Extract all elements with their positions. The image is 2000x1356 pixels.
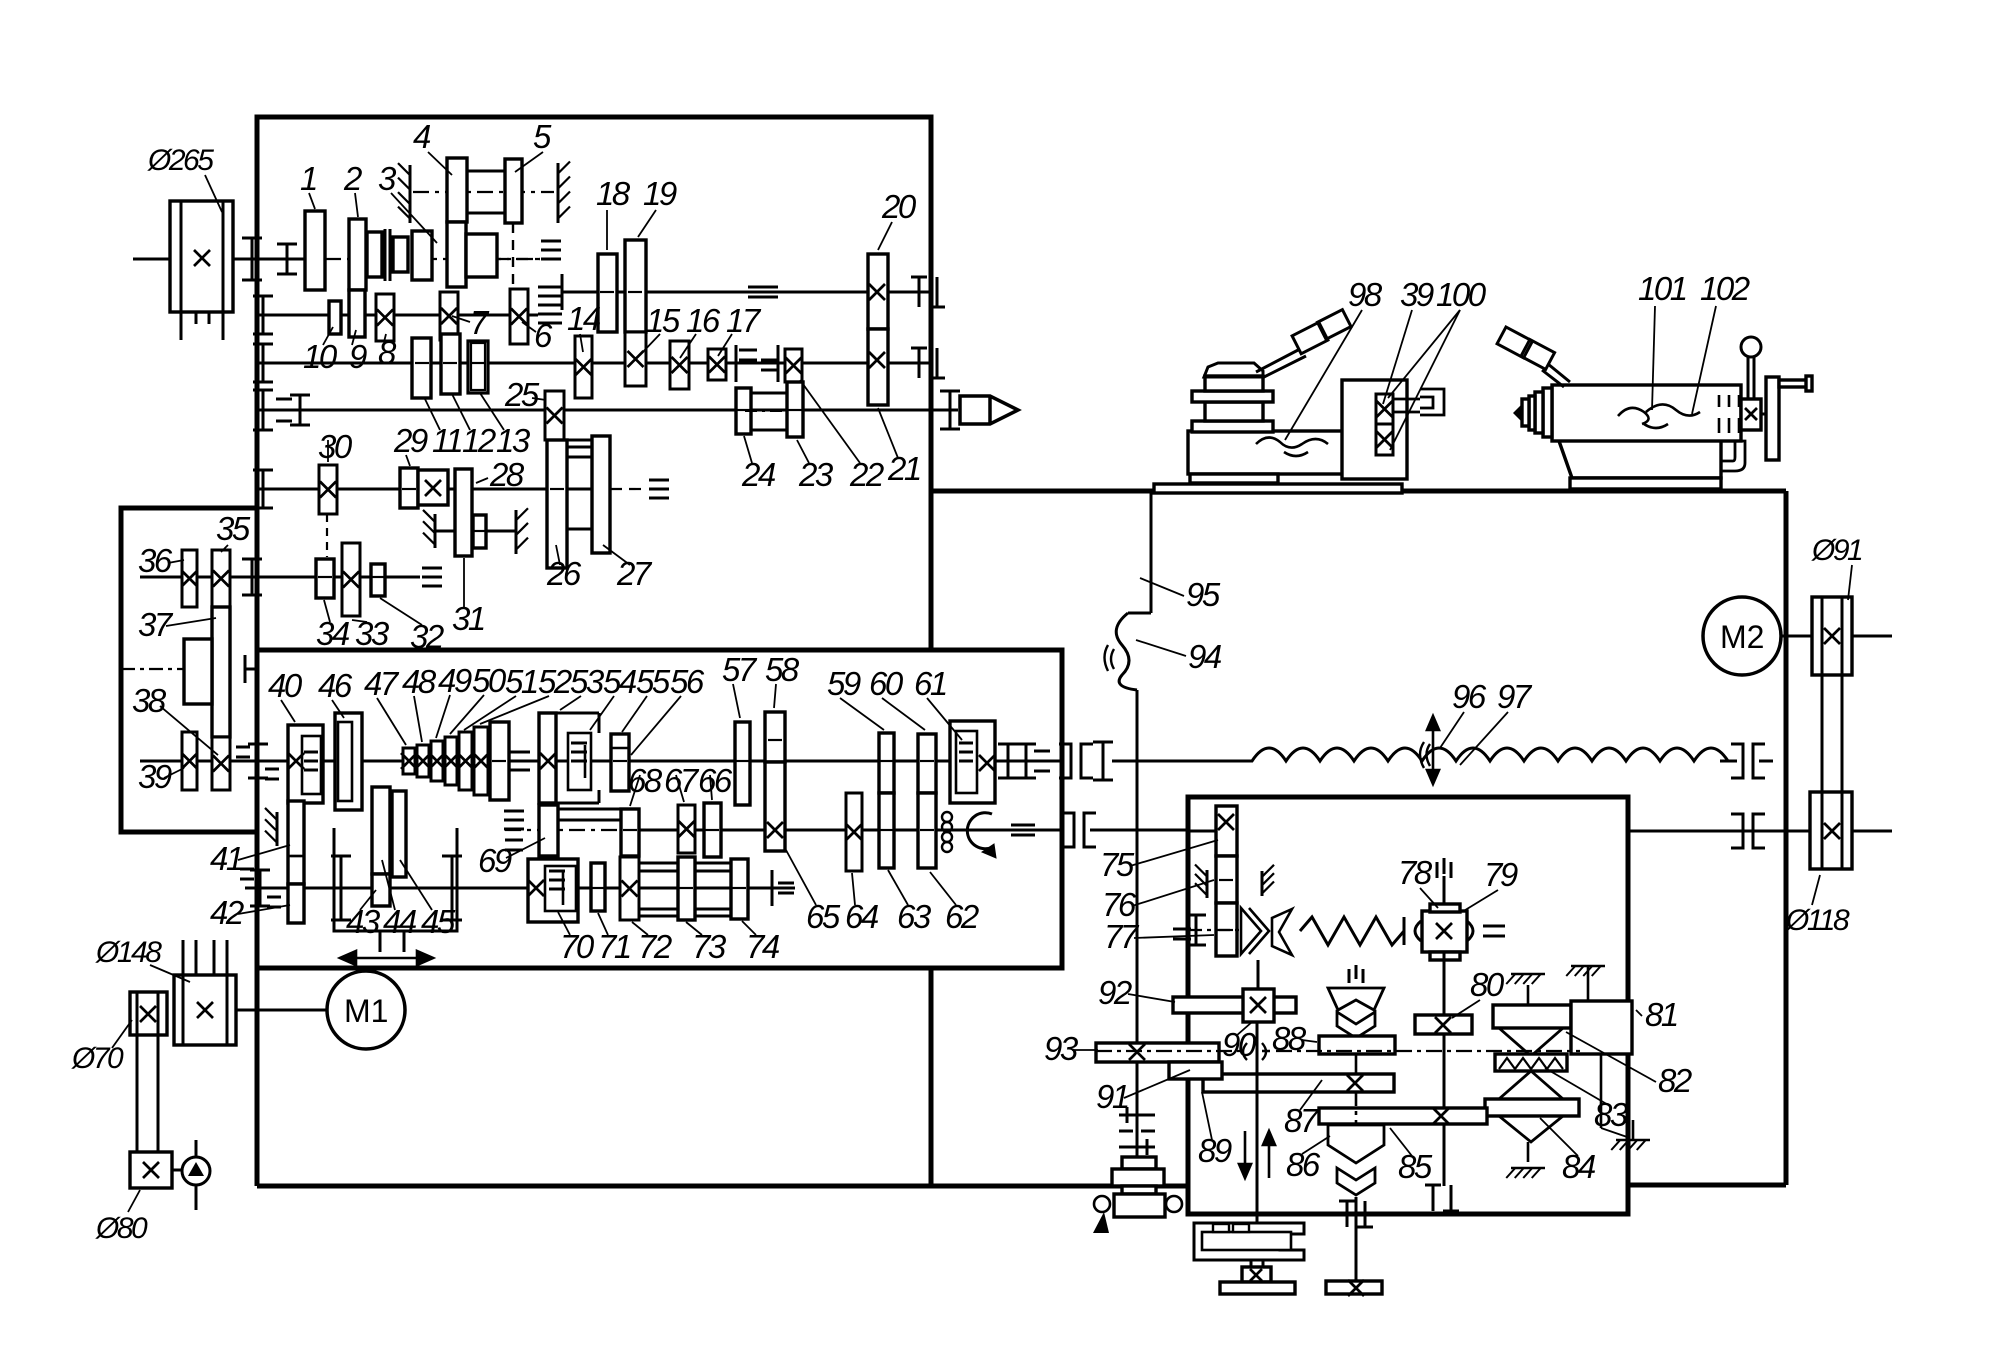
gear 71	[591, 863, 605, 911]
tailstock base plate	[1570, 478, 1721, 489]
bearing lay shaft at wall	[240, 868, 254, 871]
gear 2	[349, 219, 366, 290]
gear 68	[621, 809, 639, 856]
lay shaft IX	[245, 887, 795, 890]
bearing shaft III right	[918, 277, 921, 307]
gear 40 spline mark	[304, 751, 318, 754]
slide direction double arrow	[340, 951, 433, 965]
gear 4	[447, 158, 467, 222]
svg-text:92: 92	[1098, 974, 1132, 1011]
svg-text:54: 54	[603, 663, 637, 700]
gear 40 inner	[302, 736, 321, 794]
left shifter box	[121, 508, 256, 832]
clutch symbols right of 61	[1007, 744, 1010, 778]
svg-text:Ø148: Ø148	[95, 936, 162, 969]
gear 80	[1415, 1015, 1472, 1034]
bar 84	[1485, 1099, 1579, 1116]
bearing shaft V left wall	[262, 344, 265, 382]
spline end shaft VI	[649, 479, 669, 482]
motor M1	[327, 971, 405, 1049]
clutch 54 housing bottom	[556, 802, 599, 805]
gear at bevel shaft bottom	[1326, 1281, 1382, 1294]
shaft VII	[140, 576, 420, 579]
pulley belt Ø265	[170, 201, 233, 312]
leadscrew shaft	[505, 829, 620, 831]
leadscrew to apron box	[1090, 829, 1188, 832]
spindle sleeve to gear 26	[564, 439, 593, 442]
apron handwheel unit rect 2	[1112, 1169, 1164, 1186]
svg-text:59: 59	[827, 665, 861, 702]
svg-text:19: 19	[643, 175, 677, 212]
bracket pair feed rod right	[1731, 744, 1743, 778]
svg-text:101: 101	[1638, 270, 1686, 307]
spline after cone	[510, 751, 530, 754]
svg-text:Ø118: Ø118	[1785, 904, 1850, 937]
svg-text:22: 22	[849, 456, 884, 493]
pulley Ø70	[130, 992, 167, 1035]
sleeve 69 top bar	[558, 808, 621, 811]
svg-text:38: 38	[132, 682, 167, 719]
slide frame stem	[379, 931, 382, 952]
tailstock crank rod	[1779, 380, 1807, 387]
svg-text:50: 50	[472, 662, 507, 699]
carriage plate c	[1192, 391, 1273, 402]
equals end worm shaft	[1483, 925, 1505, 928]
gear 90 X box	[1243, 989, 1274, 1022]
gear 34	[316, 559, 334, 598]
svg-text:49: 49	[438, 662, 472, 699]
gear 92 bar	[1173, 997, 1296, 1013]
bearing T right of frame	[451, 856, 454, 920]
gear 88 bar	[1319, 1036, 1395, 1054]
gear 25	[545, 391, 564, 440]
vertical bevel shaft	[1355, 1054, 1358, 1074]
svg-text:73: 73	[692, 928, 727, 965]
cone clutch bowtie a	[1499, 1028, 1563, 1056]
spring linkage	[1300, 917, 1404, 945]
break arcs 94	[1105, 645, 1115, 671]
tailstock clamp lines upper	[1718, 395, 1721, 407]
vertical shaft to apron	[1136, 690, 1139, 1157]
spindle shaft	[257, 409, 958, 412]
cone gear 52	[474, 727, 488, 795]
gear 22	[785, 349, 802, 382]
break line 95 vertical	[1150, 491, 1153, 613]
tailstock clamp lines lower	[1718, 418, 1721, 433]
dashed link gear 5 to gear 6	[512, 223, 514, 288]
svg-text:71: 71	[598, 928, 630, 965]
rotation arrow	[967, 813, 993, 849]
tailstock body waves	[1618, 404, 1700, 428]
apron feed box	[1188, 797, 1628, 1214]
svg-text:58: 58	[765, 651, 800, 688]
svg-text:85: 85	[1398, 1148, 1433, 1185]
gear 46 inner	[338, 722, 352, 801]
svg-text:53: 53	[570, 663, 605, 700]
gear 85 bar	[1319, 1108, 1487, 1124]
gear 1	[305, 211, 325, 290]
lathe bed line	[931, 489, 1786, 494]
svg-text:Ø265: Ø265	[147, 144, 214, 177]
svg-text:81: 81	[1645, 996, 1677, 1033]
cone gear 51	[459, 732, 472, 790]
gear 35	[212, 550, 230, 607]
svg-text:60: 60	[869, 665, 904, 702]
sleeve 24-23 bottom	[751, 429, 787, 432]
break line jog	[1128, 612, 1151, 615]
gear 14	[575, 336, 592, 398]
fixed marks above bevel column	[1348, 969, 1351, 983]
tailstock quill step 2	[1535, 392, 1543, 433]
gear 31	[473, 515, 486, 548]
gear 60 upper	[918, 734, 936, 793]
carriage lever knob	[1292, 322, 1328, 353]
svg-text:42: 42	[210, 894, 244, 931]
svg-text:28: 28	[489, 456, 525, 493]
clutch 61 inner	[956, 731, 977, 793]
svg-text:90: 90	[1222, 1026, 1257, 1063]
sleeve 72-73 bottom	[639, 908, 678, 911]
gear 27 bar	[592, 436, 610, 553]
vertical shaft 80 down	[1443, 1034, 1446, 1186]
wall hatch left of shaft IV	[409, 165, 412, 223]
svg-text:96: 96	[1452, 678, 1487, 715]
shaft III	[562, 291, 931, 294]
fixed marks above worm	[1436, 862, 1439, 878]
feed gear-train inner box	[257, 650, 1062, 968]
svg-text:17: 17	[726, 302, 762, 339]
svg-text:56: 56	[670, 663, 705, 700]
gear 58 upper	[765, 712, 785, 762]
svg-text:45: 45	[421, 903, 456, 940]
bearing spindle right	[949, 391, 952, 429]
rack bar bottom	[1220, 1282, 1295, 1294]
gear 67	[678, 805, 695, 853]
gear 53 bar	[539, 713, 556, 803]
svg-text:70: 70	[560, 928, 595, 965]
bearing end lay shaft	[771, 870, 774, 906]
coupling at wall row VIII	[236, 746, 250, 749]
herringbone bar 83	[1495, 1054, 1567, 1071]
gear 18	[598, 254, 617, 332]
main headstock gearbox box	[257, 117, 931, 1186]
shaft I end axis dashes	[497, 258, 540, 260]
svg-text:66: 66	[698, 762, 733, 799]
shaft stub right of Ø91	[1852, 635, 1892, 638]
bracket pair feed rod at box edge	[1059, 744, 1071, 778]
gear 70 clutch housing	[528, 859, 578, 922]
gear 72	[620, 857, 639, 920]
worm coupling bracket left	[1415, 921, 1421, 941]
tailstock base	[1559, 441, 1721, 478]
block 81	[1571, 1001, 1632, 1054]
svg-text:41: 41	[210, 840, 242, 877]
chevron coupling half B	[1272, 909, 1292, 955]
leadscrew out of apron box	[1628, 830, 1810, 833]
gear 64	[846, 793, 862, 871]
gear 36	[182, 550, 197, 607]
svg-text:M1: M1	[344, 993, 388, 1029]
feed rod end segment	[1720, 760, 1737, 763]
gear 7	[440, 292, 458, 340]
cross-slide saddle	[1342, 380, 1407, 479]
slide arrows down up	[1239, 1131, 1275, 1178]
svg-text:15: 15	[646, 302, 681, 339]
spline end shaft I	[541, 240, 561, 243]
clutch 61 housing	[950, 721, 995, 803]
tailstock quill step 3	[1529, 396, 1535, 430]
svg-text:44: 44	[383, 903, 417, 940]
shaft IV axis	[413, 191, 554, 193]
svg-text:M2: M2	[1720, 619, 1764, 655]
carriage turret dome	[1204, 363, 1263, 377]
cross-slide screw box lower	[1376, 424, 1393, 455]
svg-text:12: 12	[462, 422, 496, 459]
gear 23	[787, 382, 803, 437]
svg-text:36: 36	[138, 542, 173, 579]
gear 19 upper	[625, 240, 646, 332]
svg-text:2: 2	[343, 160, 362, 197]
tailstock clamp stem	[1747, 357, 1750, 399]
coupling on shaft I	[251, 238, 254, 280]
svg-text:72: 72	[638, 928, 672, 965]
svg-text:32: 32	[410, 618, 444, 655]
vertical shaft worm to 80	[1443, 952, 1446, 1015]
gear 9	[349, 290, 365, 337]
break arcs on feed rod	[1420, 742, 1430, 768]
svg-text:34: 34	[316, 615, 350, 652]
pulley Ø148	[174, 975, 236, 1045]
tailstock lever knob	[1497, 327, 1532, 358]
worm shaft axis	[1188, 929, 1240, 931]
svg-text:79: 79	[1484, 856, 1518, 893]
double arrow on feed rod	[1427, 716, 1439, 784]
break line 94 wavy	[1116, 613, 1137, 690]
svg-text:84: 84	[1562, 1148, 1596, 1185]
spindle nose center arrow	[960, 396, 1018, 424]
gear 55 56	[611, 734, 629, 791]
tailstock handwheel disk	[1766, 377, 1779, 460]
svg-text:27: 27	[616, 555, 653, 592]
bearing before gear 22	[777, 345, 780, 382]
svg-text:21: 21	[887, 450, 920, 487]
svg-text:13: 13	[496, 422, 531, 459]
vertical slide shaft	[1256, 1022, 1259, 1223]
spline start leadscrew	[504, 810, 524, 813]
sleeve 73-74 top	[695, 862, 731, 865]
oil pump	[182, 1157, 210, 1185]
gear 45	[392, 791, 406, 877]
slide frame stem	[1250, 1260, 1253, 1267]
slide frame C bracket	[1194, 1223, 1304, 1260]
carriage lever arm	[1256, 349, 1306, 378]
spring coils on leadscrew	[942, 812, 952, 822]
svg-text:18: 18	[596, 175, 631, 212]
svg-text:64: 64	[845, 898, 879, 935]
tailstock body	[1552, 385, 1741, 441]
bearing feed rod	[1102, 742, 1105, 780]
vertical from 81 down	[1600, 1054, 1603, 1128]
right outer box bottom wall	[1628, 1183, 1786, 1188]
svg-text:Ø91: Ø91	[1811, 534, 1862, 567]
svg-text:65: 65	[806, 898, 841, 935]
svg-text:61: 61	[914, 665, 946, 702]
gear 26 bar	[547, 440, 567, 568]
cone gear 50	[445, 737, 457, 785]
gear 75	[1216, 806, 1237, 856]
svg-text:40: 40	[268, 667, 303, 704]
tailstock quill step 1	[1543, 388, 1552, 437]
carriage apron body	[1188, 431, 1343, 474]
sleeve axis	[745, 410, 795, 412]
gear 20 upper	[868, 254, 888, 329]
spindle clutch symbols left	[262, 390, 265, 430]
tailstock axle	[1761, 413, 1766, 416]
gear 5	[505, 159, 522, 223]
gear X box under frame	[1242, 1267, 1271, 1282]
worm box 78 79	[1422, 911, 1467, 952]
svg-text:Ø70: Ø70	[71, 1042, 124, 1075]
gear 38	[212, 737, 230, 790]
tailstock drain pipe	[1721, 441, 1745, 471]
equals marks shaft V	[739, 349, 757, 352]
gear 91 bar	[1169, 1062, 1222, 1079]
svg-text:69: 69	[478, 842, 512, 879]
right outer box right wall	[1784, 491, 1789, 1185]
gearbox right wall lower segment	[929, 968, 934, 1186]
friction clutch bar	[1493, 1005, 1571, 1028]
gear 17	[708, 349, 726, 380]
gear 15 lower of 19 column	[625, 332, 646, 386]
shaft I	[133, 258, 170, 261]
gear 10	[329, 301, 341, 334]
gear 62 lower of 60	[918, 793, 936, 868]
apron handwheel left ball	[1094, 1196, 1110, 1212]
svg-text:46: 46	[318, 667, 353, 704]
apron handwheel right knob	[1166, 1196, 1182, 1212]
sleeve 26-27 top	[567, 446, 592, 449]
carriage block d	[1205, 376, 1263, 391]
gear 8	[376, 294, 394, 341]
carriage lower plate	[1192, 421, 1273, 432]
gear 3 sliding cluster body	[447, 222, 466, 287]
gear 29 rect	[400, 468, 418, 508]
pulley Ø91	[1812, 597, 1852, 675]
belt Ø91 to Ø118	[1821, 675, 1824, 792]
svg-text:98: 98	[1348, 276, 1383, 313]
gear 30	[319, 465, 337, 514]
svg-text:14: 14	[567, 300, 601, 337]
bearing fork rod at wall	[244, 655, 247, 683]
svg-text:55: 55	[636, 663, 671, 700]
cone gear 52b wide	[490, 722, 509, 800]
svg-text:52: 52	[538, 663, 572, 700]
sleeve 72-73 top	[639, 862, 678, 865]
apron handwheel unit rect 1	[1122, 1157, 1156, 1169]
gear 43	[372, 874, 390, 906]
motor M2	[1703, 597, 1781, 675]
belt lines to pulley Ø148	[182, 940, 185, 975]
svg-text:102: 102	[1700, 270, 1750, 307]
svg-text:77: 77	[1104, 918, 1140, 955]
svg-text:78: 78	[1398, 854, 1433, 891]
shaft II	[257, 314, 538, 317]
vertical worm shaft upper	[1443, 876, 1446, 904]
equals mark shaft III	[748, 286, 778, 289]
coupling marks on cross slide axis	[1243, 1043, 1270, 1060]
gear 24	[736, 388, 751, 434]
svg-text:57: 57	[722, 651, 758, 688]
gear 13	[468, 341, 488, 393]
bearing shaft V right	[918, 348, 921, 378]
gear 12	[441, 334, 460, 394]
svg-text:100: 100	[1436, 276, 1487, 313]
hatch below clutch column	[1527, 1142, 1530, 1162]
gear cluster 3 step a	[367, 232, 382, 277]
hatch below 81	[1616, 1139, 1650, 1142]
bearing bevel shaft at box bottom	[1346, 1201, 1349, 1227]
apron handle cone	[1093, 1212, 1109, 1233]
sleeve 24-23 top	[751, 392, 787, 395]
svg-text:43: 43	[346, 903, 381, 940]
tool clamp	[1420, 389, 1444, 415]
bearing worm shaft left	[1173, 928, 1191, 931]
gear 76	[1216, 856, 1237, 903]
shifter fork 37 block	[184, 639, 212, 704]
svg-text:94: 94	[1188, 638, 1222, 675]
tailstock screw box	[1741, 399, 1761, 430]
gear 40 clutch body	[288, 725, 323, 803]
svg-text:75: 75	[1100, 846, 1135, 883]
gear 33	[342, 543, 360, 616]
apron handwheel unit body	[1114, 1194, 1165, 1217]
bracket pair leadscrew right	[1731, 814, 1743, 848]
wire shaft IV rim lines	[467, 170, 505, 173]
cross-slide link lines	[1393, 398, 1420, 401]
carriage base plate	[1154, 484, 1402, 493]
svg-text:Ø80: Ø80	[95, 1212, 148, 1245]
svg-text:35: 35	[216, 510, 251, 547]
gear 70 inner	[545, 866, 576, 911]
svg-text:37: 37	[138, 606, 174, 643]
svg-text:16: 16	[686, 302, 721, 339]
gear 32	[371, 564, 385, 596]
svg-text:4: 4	[413, 118, 431, 155]
svg-text:20: 20	[881, 188, 917, 225]
clutch on vertical shaft	[1119, 1115, 1155, 1147]
svg-text:30: 30	[318, 428, 353, 465]
wall hatch right of 76	[1261, 871, 1264, 896]
pulley Ø80	[130, 1152, 172, 1188]
bevel gear funnel lower	[1328, 1125, 1384, 1195]
wall hatch left of 76	[1206, 870, 1209, 898]
gear 73	[678, 857, 695, 920]
equals end leadscrew in box	[1011, 824, 1035, 827]
carriage body wave	[1256, 437, 1328, 456]
svg-text:62: 62	[945, 898, 979, 935]
gear 39	[182, 732, 197, 790]
svg-text:31: 31	[452, 600, 484, 637]
cone clutch bowtie c	[1499, 1116, 1563, 1142]
bearing vertical shaft at box bottom	[1432, 1185, 1435, 1211]
slide frame top tabs	[1213, 1224, 1229, 1232]
svg-text:80: 80	[1470, 966, 1505, 1003]
carriage block b	[1205, 402, 1263, 421]
feed rod wavy line 96	[1112, 748, 1728, 761]
shaft V	[257, 362, 931, 365]
cross slide axis	[1096, 1050, 1240, 1052]
tailstock crank cap	[1806, 376, 1812, 391]
